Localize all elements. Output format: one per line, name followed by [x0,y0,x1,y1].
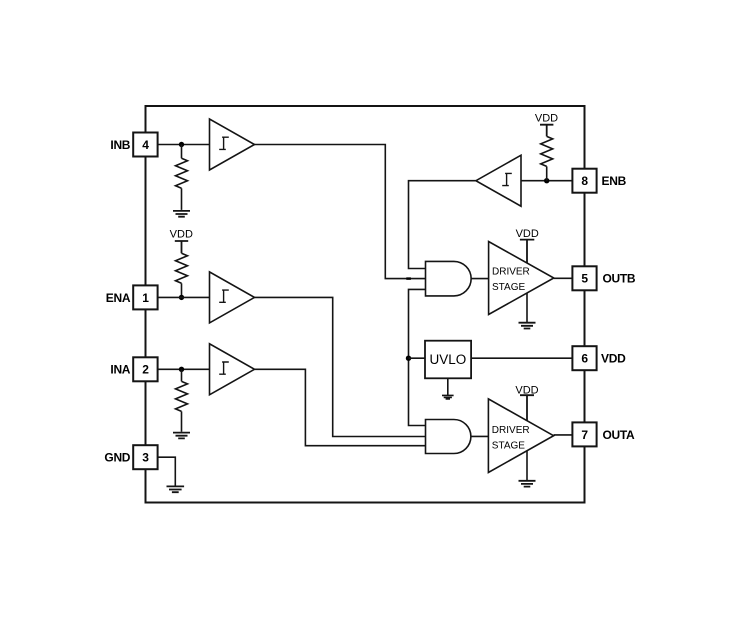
ground under driver A [519,451,536,487]
schmitt buffer U3 (INA) [210,344,255,395]
node junction dot UVLO net [406,356,411,361]
pin 2 INA box [133,357,157,381]
svg-text:VDD: VDD [170,228,193,240]
svg-text:DRIVER: DRIVER [492,266,530,277]
svg-text:VDD: VDD [516,228,539,240]
wire crossing mark [406,277,411,280]
driver stage A triangle [488,399,553,473]
svg-text:1: 1 [142,291,149,305]
pin 6 VDD box [572,346,596,370]
svg-text:ENA: ENA [106,291,131,305]
node junction dot INB/R1 [179,142,184,147]
svg-text:INB: INB [110,138,130,152]
IC boundary box [146,106,585,503]
svg-text:STAGE: STAGE [492,440,525,451]
svg-text:OUTA: OUTA [603,428,636,442]
wire driver A to pin7 [554,434,573,436]
svg-text:OUTB: OUTB [603,272,636,286]
svg-text:6: 6 [581,352,588,366]
pin 1 ENA box [133,285,157,309]
VDD rail symbol driver B [520,240,534,263]
resistor R4 (ENB pullup) [541,136,553,180]
schmitt buffer U2 (ENA) [210,272,255,323]
AND gate G1 (channel B) [426,261,472,296]
wire pin2 to buffer U3 [158,368,210,370]
wire driver B to pin5 [554,277,573,279]
svg-text:ENB: ENB [602,174,627,188]
svg-text:DRIVER: DRIVER [492,425,530,436]
AND gate G2 (channel A) [426,420,471,454]
wire U1 output to AND G1 middle input [255,145,426,279]
ground at pin3 [167,486,185,492]
wire UVLO net: G1 bottom input down to G2 top input [409,289,426,425]
node junction dot INA/R3 [179,367,184,372]
VDD rail symbol R2 [175,241,188,253]
svg-text:7: 7 [581,428,588,442]
svg-text:VDD: VDD [535,112,558,124]
wire U3 output to AND G2 bottom input [255,369,426,445]
svg-text:5: 5 [581,272,588,286]
svg-text:UVLO: UVLO [430,352,467,367]
wire pin8 to schmitt U4 [521,180,572,182]
wire pin3 to ground [158,457,176,486]
wire pin1 to buffer U2 [158,296,210,298]
ground under driver B [519,293,536,329]
pin 8 ENB box [572,169,596,193]
resistor R2 (ENA pullup) [176,253,188,297]
wire AND G2 output to driver A [471,435,489,437]
pin 7 OUTA box [572,422,596,446]
svg-text:4: 4 [142,138,149,152]
schmitt buffer U4 (ENB, left-facing) [476,155,521,206]
node junction dot ENB/R4 [544,178,549,183]
wire U4 output to AND G1 top input [409,181,476,269]
VDD rail symbol R4 [540,125,553,137]
pin 3 GND box [133,445,157,469]
wire UVLO box to pin6 VDD [471,357,572,359]
svg-text:2: 2 [142,363,149,377]
UVLO box U5 [425,341,471,379]
svg-text:GND: GND [104,451,130,465]
ground under R1 [173,211,190,217]
svg-text:3: 3 [142,451,149,465]
resistor R3 (INA pulldown) [176,369,188,432]
svg-text:8: 8 [581,174,588,188]
driver stage B triangle [489,242,554,315]
ground under R3 [173,433,190,439]
node junction dot ENA/R2 [179,295,184,300]
resistor R1 (INB pulldown) [176,145,188,210]
pin 5 OUTB box [572,266,596,290]
wire U2 output to AND G2 middle input [255,297,426,436]
ground under UVLO [442,378,454,399]
wire pin4 to buffer U1 [158,144,210,146]
schmitt buffer U1 (INB) [210,119,255,170]
wire AND G1 output to driver B [471,278,489,280]
svg-text:STAGE: STAGE [492,282,525,293]
pin 4 INB box [133,133,157,157]
svg-text:INA: INA [110,363,130,377]
wire UVLO net to UVLO box [409,357,426,359]
svg-text:VDD: VDD [601,352,626,366]
VDD rail symbol driver A [520,395,534,420]
